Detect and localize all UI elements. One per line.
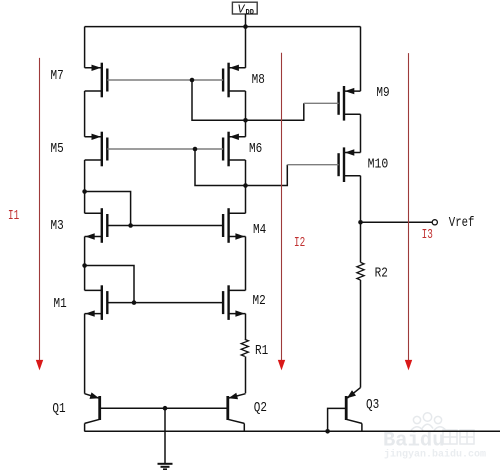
svg-text:M1: M1	[54, 297, 67, 312]
wire: node B to M1/M2 gate bus	[85, 266, 134, 303]
svg-text:I1: I1	[8, 209, 19, 224]
wire: M7 source to M5 drain	[84, 91, 86, 137]
wire: ground stem	[164, 408, 166, 463]
wire: M4 source to M2 drain	[245, 237, 247, 291]
svg-text:M9: M9	[376, 86, 389, 101]
wire: M6 gate tap down to M10 gate	[195, 149, 287, 186]
svg-text:M3: M3	[51, 219, 64, 234]
transistor M3	[85, 208, 108, 243]
transistor Q2	[228, 393, 246, 432]
svg-text:R2: R2	[375, 267, 388, 282]
junction: VDD rail / stem	[243, 24, 248, 29]
transistor Q3	[346, 388, 362, 432]
transistor Q1	[85, 392, 100, 431]
power supply VDD label box	[232, 2, 257, 17]
wire: VDD rail to M7 drain	[84, 27, 86, 68]
wire: Q1 base to Q2 base	[101, 407, 227, 409]
wire: M8 source to M6 drain	[245, 91, 247, 137]
wire: M9 gate lead	[304, 102, 339, 104]
current arrow I2	[278, 53, 285, 371]
junction: Q3 base on ground rail	[325, 429, 330, 434]
wire: M10 source to Vref node	[360, 176, 362, 223]
svg-text:I2: I2	[294, 236, 305, 251]
transistor M10	[339, 147, 361, 182]
wire: M8 gate tap down to cascode node / M9 gate	[192, 80, 304, 120]
resistor R1	[241, 339, 248, 356]
wire: R2 to Q3 collector	[360, 280, 362, 388]
wire: VDD stem	[245, 14, 247, 27]
junction: node B on left rail	[82, 263, 87, 268]
transistor M8	[223, 63, 245, 98]
svg-text:Q1: Q1	[52, 402, 65, 417]
svg-text:M4: M4	[253, 223, 266, 238]
wire: M3 source to M1 drain (node B)	[84, 237, 86, 291]
svg-text:M2: M2	[253, 294, 266, 309]
junction: base wire / ground stem	[163, 406, 168, 411]
svg-text:M10: M10	[368, 158, 389, 173]
junction: node on right rail (M6 source)	[243, 183, 248, 188]
wire: M6 source to M4 drain	[245, 160, 247, 213]
svg-text:V: V	[238, 3, 246, 16]
wire: gate bus M5-M6	[107, 148, 223, 150]
wire: gate bus M7-M8	[107, 79, 223, 81]
wire: VDD rail down to M9 drain	[360, 27, 362, 92]
transistor M7	[85, 63, 108, 98]
junction: cascode node on right rail (M8 source)	[243, 118, 248, 123]
current arrow I3	[405, 53, 412, 370]
junction: M5/M6 gate bus tap	[193, 147, 198, 152]
wire: M1 source down to Q1 emitter	[84, 314, 86, 394]
transistor M2	[223, 285, 245, 320]
wire: node A to M3/M4 gate bus	[85, 192, 131, 226]
wire: R1 to Q2 collector	[245, 356, 247, 393]
svg-text:jingyan.baidu.com: jingyan.baidu.com	[384, 449, 486, 461]
wire: gate bus M1-M2	[107, 302, 223, 304]
transistor M9	[339, 86, 361, 121]
wire: ground rail (bottom)	[84, 430, 500, 432]
transistor M1	[85, 285, 108, 320]
wire: M5 source to M3 drain (node A)	[84, 160, 86, 213]
wire: M2 source to resistor R1	[245, 314, 247, 340]
terminal: Vref output	[432, 220, 437, 225]
svg-text:M6: M6	[249, 142, 262, 157]
svg-text:M5: M5	[51, 142, 64, 157]
wire: gate bus M3-M4	[107, 225, 223, 227]
wire: Q3 base to ground rail	[328, 408, 345, 431]
svg-text:M8: M8	[252, 73, 265, 88]
transistor M4	[223, 208, 245, 243]
svg-text:Q2: Q2	[254, 401, 267, 416]
resistor R2	[357, 262, 364, 280]
wire: Vref node to resistor R2	[360, 222, 362, 262]
junction: M1 gate tie	[132, 300, 137, 305]
transistor M5	[85, 132, 108, 167]
wire: VDD top rail	[85, 26, 361, 28]
wire: Vref node to output terminal	[361, 221, 433, 223]
wire: M9 source to M10 drain	[360, 114, 362, 152]
svg-text:I3: I3	[422, 228, 433, 243]
svg-text:Vref: Vref	[449, 216, 475, 231]
svg-text:M7: M7	[51, 69, 64, 84]
junction: M3 gate tie	[128, 223, 133, 228]
junction: Vref node	[358, 220, 363, 225]
transistor M6	[223, 132, 245, 167]
junction: node A on left rail	[82, 189, 87, 194]
svg-text:R1: R1	[255, 344, 268, 359]
current arrow I1	[36, 58, 43, 371]
ground symbol	[158, 464, 173, 470]
junction: M7/M8 gate bus tap	[190, 78, 195, 83]
svg-text:DD: DD	[246, 9, 254, 17]
wire: M10 gate lead	[287, 164, 338, 166]
wire: VDD rail to M8 drain	[245, 27, 247, 68]
svg-text:Q3: Q3	[366, 398, 379, 413]
